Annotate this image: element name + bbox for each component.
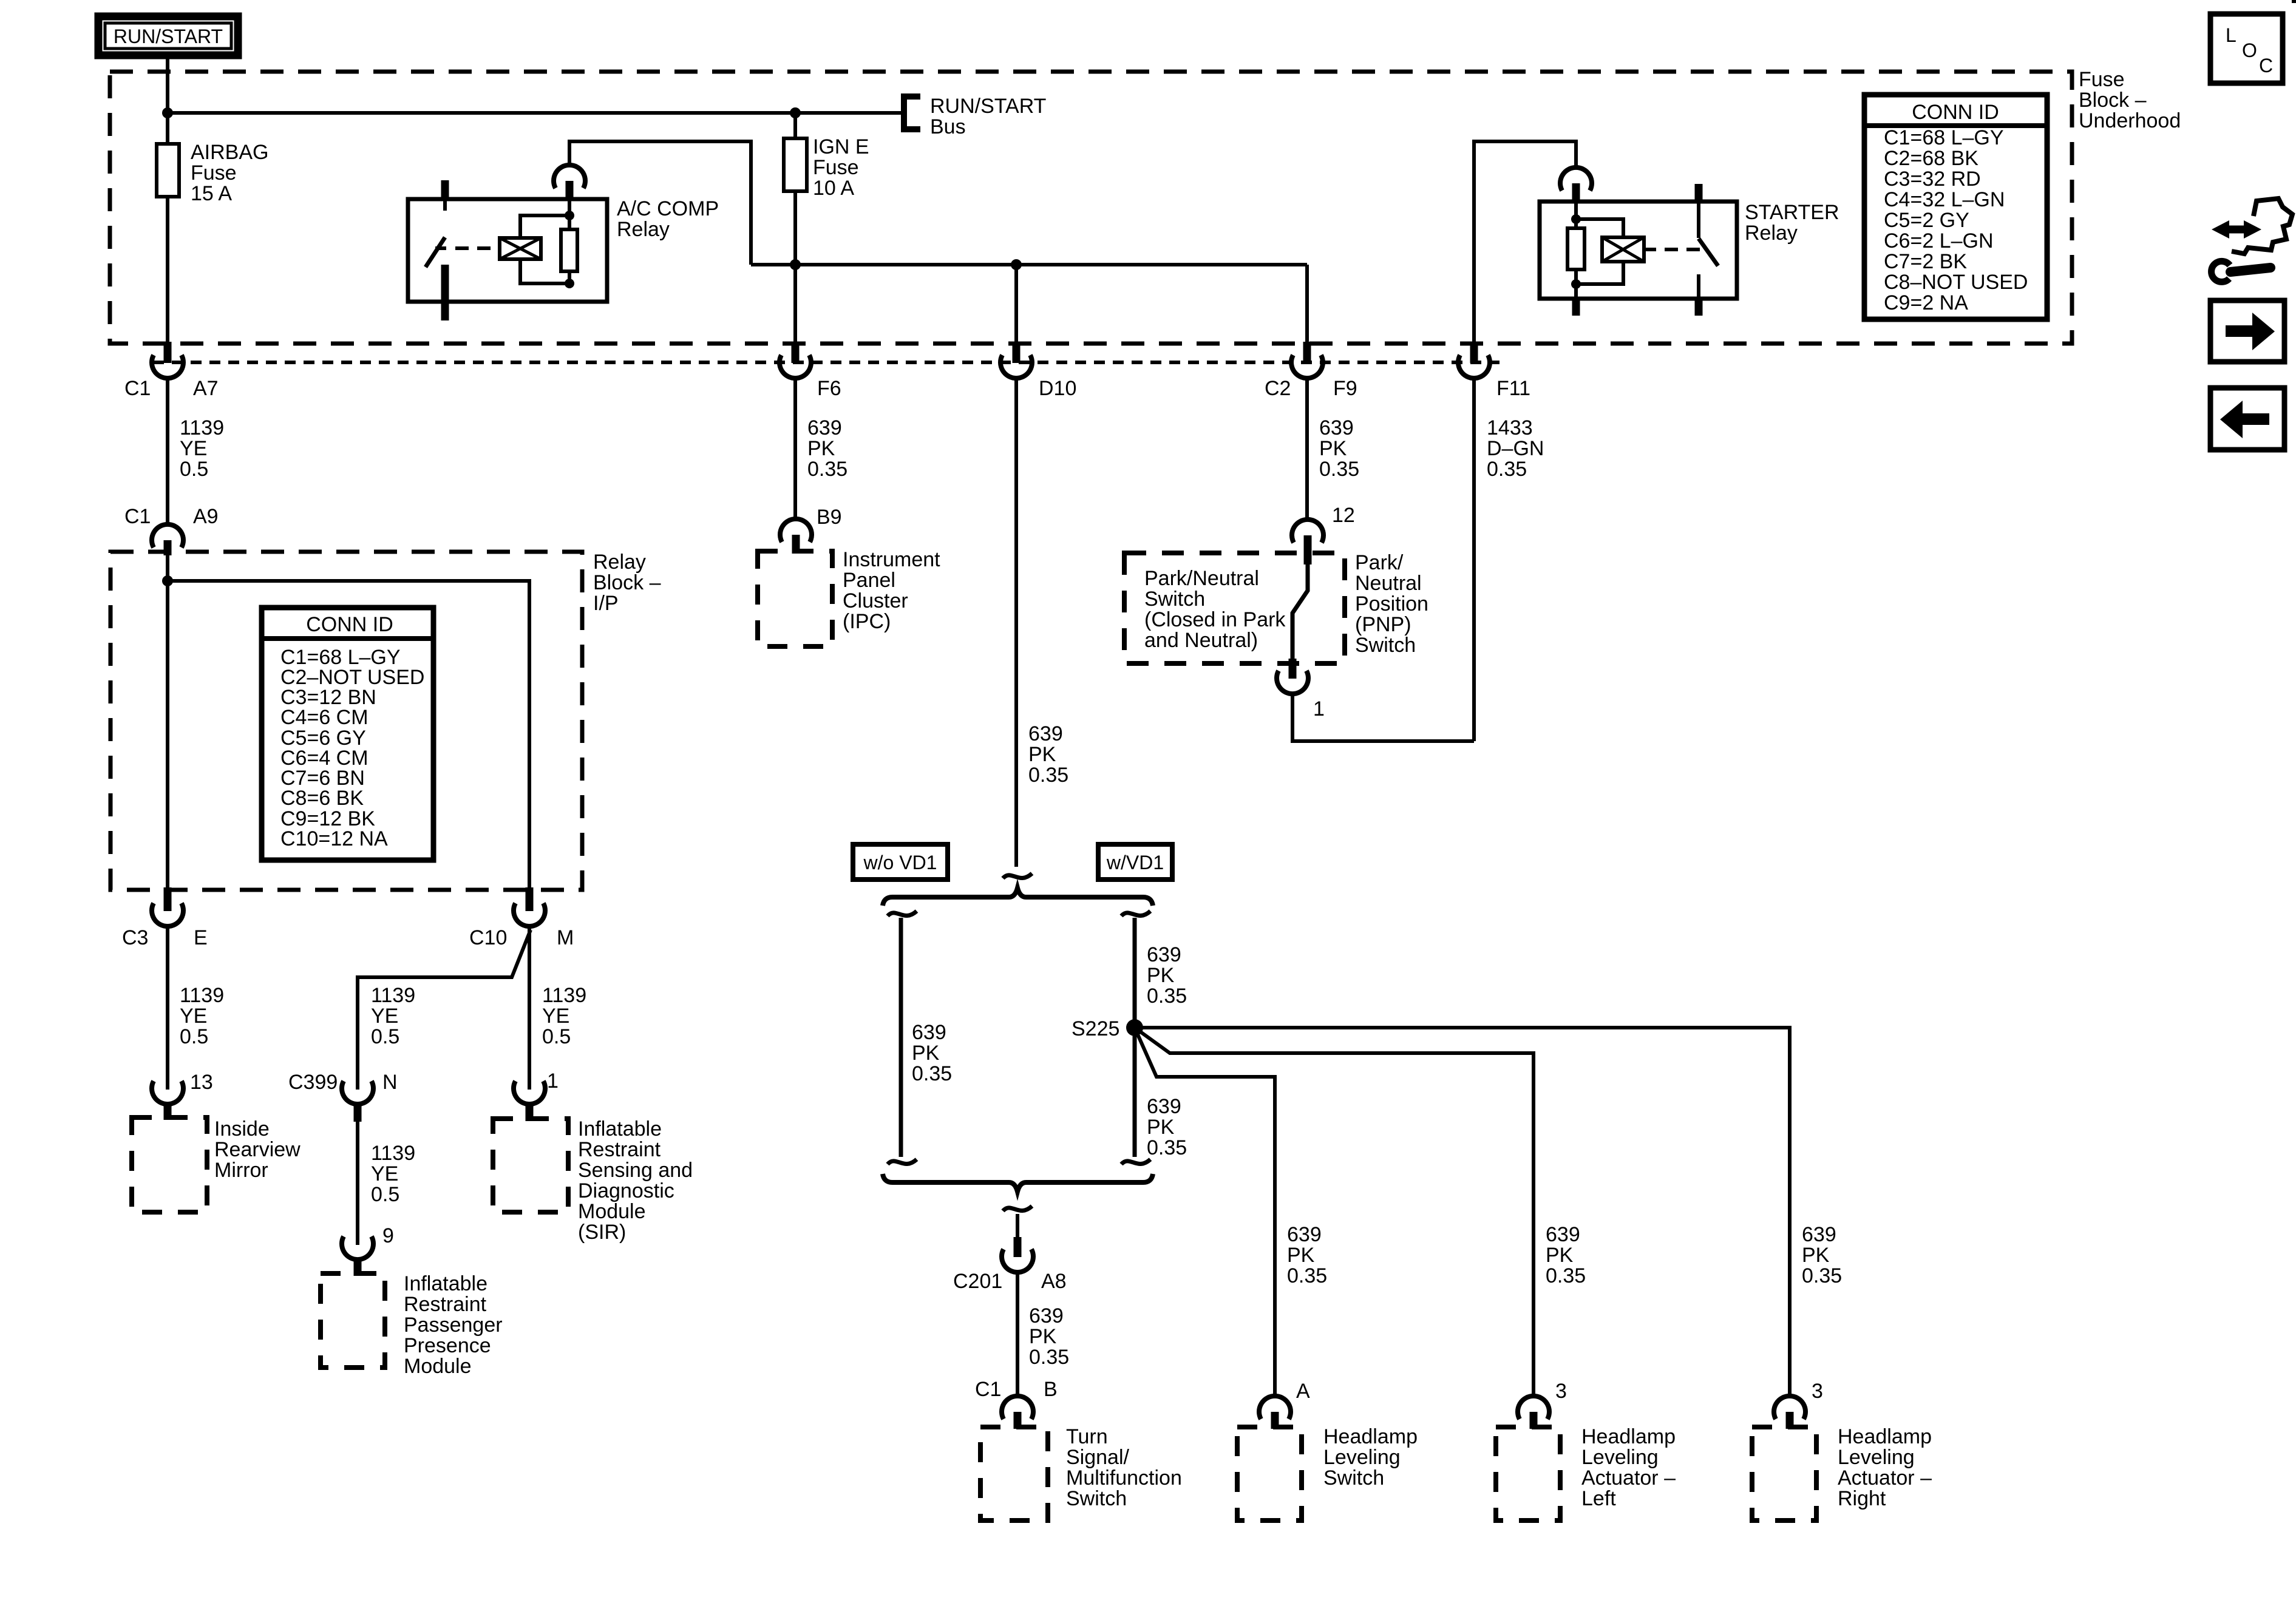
svg-text:0.35: 0.35 (912, 1062, 952, 1085)
svg-text:Fuse: Fuse (2079, 68, 2125, 91)
svg-text:PK: PK (912, 1042, 940, 1065)
wire break squiggle right branch bottom (1121, 1159, 1150, 1164)
relay STARTER coil top wire (1576, 219, 1623, 237)
svg-text:639: 639 (1029, 1304, 1064, 1327)
connector arc at A/C relay coil pin (554, 165, 585, 188)
svg-text:AIRBAG: AIRBAG (191, 141, 268, 164)
svg-text:A/C COMP: A/C COMP (617, 197, 719, 220)
svg-text:C9=2 NA: C9=2 NA (1884, 291, 1968, 314)
component box Turn Signal Multifunction Switch (980, 1425, 1182, 1520)
component box Inflatable Restraint Passenger Presence Module (321, 1272, 503, 1378)
svg-text:Leveling: Leveling (1323, 1446, 1401, 1469)
connector C1 pin A9 (124, 505, 219, 555)
svg-text:w/o VD1: w/o VD1 (863, 852, 937, 873)
svg-text:Switch: Switch (1066, 1487, 1127, 1510)
svg-text:0.35: 0.35 (1147, 985, 1187, 1008)
RUN/START Bus terminal bracket (904, 95, 1046, 138)
connector D10 (1000, 342, 1076, 400)
svg-text:YE: YE (371, 1162, 398, 1185)
svg-text:C: C (2259, 55, 2273, 76)
svg-text:and Neutral): and Neutral) (1144, 629, 1258, 652)
fuse IGN E 10A (784, 113, 869, 345)
icon vehicle outline with wrench (2212, 198, 2292, 282)
svg-text:C3: C3 (122, 926, 148, 949)
connector 12 PNP switch (1292, 504, 1355, 564)
svg-text:639: 639 (1546, 1223, 1580, 1246)
svg-text:C2=68 BK: C2=68 BK (1884, 147, 1978, 170)
svg-text:w/VD1: w/VD1 (1106, 852, 1164, 873)
icon forward arrow box (2210, 300, 2284, 362)
svg-text:Signal/: Signal/ (1066, 1446, 1130, 1469)
svg-text:Module: Module (404, 1355, 472, 1378)
svg-text:C1=68 L–GY: C1=68 L–GY (1884, 126, 2004, 149)
wire RUN/START bus horizontal (168, 111, 904, 115)
svg-text:F9: F9 (1333, 377, 1357, 400)
connector C201 pin A8 (953, 1237, 1067, 1293)
svg-text:S225: S225 (1072, 1017, 1119, 1040)
svg-text:IGN E: IGN E (813, 135, 869, 158)
svg-text:Park/Neutral: Park/Neutral (1144, 567, 1259, 590)
wire 639 PK D10 long drop (1016, 378, 1068, 867)
relay A/C COMP switch blade (426, 237, 445, 267)
svg-text:C7=2 BK: C7=2 BK (1884, 250, 1967, 273)
wire 1139 YE branch M to C399 (358, 930, 531, 1090)
svg-text:Block –: Block – (593, 571, 661, 594)
svg-text:Right: Right (1838, 1487, 1886, 1510)
relay STARTER switch fixed lead (1697, 203, 1700, 238)
icon LOC locator box (2210, 14, 2283, 83)
svg-text:M: M (557, 926, 574, 949)
svg-text:0.35: 0.35 (1487, 458, 1527, 481)
svg-text:15 A: 15 A (191, 182, 232, 205)
svg-text:Rearview: Rearview (214, 1138, 301, 1161)
connector F6 (779, 342, 841, 400)
wire rejoined to C201 (1016, 1214, 1019, 1239)
wire S225 to headlamp actuator left (1135, 1028, 1586, 1396)
wire 1433 D-GN F11 down (1474, 378, 1544, 741)
wire STARTER coil feed to F11 (1474, 141, 1576, 345)
svg-text:639: 639 (1028, 722, 1063, 745)
svg-text:13: 13 (190, 1071, 213, 1094)
relay STARTER switch blade (1699, 239, 1718, 266)
svg-text:CONN ID: CONN ID (306, 613, 393, 636)
svg-text:1433: 1433 (1487, 416, 1533, 439)
wire break squiggle top of VD1 split (1003, 873, 1032, 878)
page corner mark (2292, 0, 2296, 3)
relay STARTER switch pin top stub (1695, 184, 1703, 203)
svg-text:0.5: 0.5 (542, 1025, 571, 1048)
wire F9 drop inside fuse block (1305, 265, 1309, 345)
relay STARTER switch contact tick (1686, 248, 1697, 251)
svg-text:0.5: 0.5 (180, 458, 208, 481)
wire inside relay block left column (166, 554, 169, 892)
node junction dot at IGN E fuse tap (790, 107, 801, 118)
wire 639 PK F9 to PNP 12 (1307, 378, 1359, 520)
connector pin A headlamp leveling switch (1259, 1380, 1310, 1429)
svg-text:D–GN: D–GN (1487, 437, 1544, 460)
svg-text:1: 1 (547, 1070, 559, 1093)
svg-text:1139: 1139 (542, 984, 586, 1007)
svg-text:0.5: 0.5 (371, 1183, 399, 1206)
svg-text:Instrument: Instrument (843, 548, 940, 571)
node dot starter coil bottom (1571, 279, 1581, 289)
connector pin 3 headlamp actuator left (1518, 1380, 1567, 1429)
option box w/o VD1 (853, 844, 948, 880)
svg-text:Sensing and: Sensing and (578, 1159, 693, 1182)
svg-text:0.35: 0.35 (1546, 1264, 1586, 1287)
svg-text:0.35: 0.35 (1028, 764, 1068, 787)
svg-text:L: L (2226, 24, 2237, 46)
wire 1139 YE N to 9 (358, 1122, 415, 1245)
component box Inside Rearview Mirror (132, 1117, 301, 1212)
svg-text:C1: C1 (975, 1378, 1001, 1401)
svg-text:Presence: Presence (404, 1334, 491, 1357)
svg-text:B9: B9 (817, 506, 842, 529)
svg-text:Underhood: Underhood (2079, 109, 2181, 132)
svg-text:A: A (1296, 1380, 1310, 1403)
svg-text:CONN ID: CONN ID (1912, 101, 1999, 124)
svg-text:C10=12 NA: C10=12 NA (280, 827, 388, 850)
svg-text:(Closed in Park: (Closed in Park (1144, 608, 1286, 631)
svg-text:Headlamp: Headlamp (1838, 1425, 1932, 1448)
dotted connector interface line (153, 361, 1500, 364)
svg-text:0.35: 0.35 (1287, 1264, 1327, 1287)
svg-text:Relay: Relay (617, 218, 670, 241)
fuse AIRBAG 15A (157, 113, 268, 345)
svg-text:9: 9 (382, 1224, 394, 1247)
PNP switch bottom stub (1289, 659, 1297, 679)
svg-text:B: B (1044, 1378, 1058, 1401)
relay A/C COMP switch contact tick (435, 246, 446, 250)
relay block I/P dashed box (110, 551, 661, 890)
CONN ID table I/P (262, 608, 433, 860)
component box Headlamp Leveling Actuator Right (1752, 1425, 1932, 1520)
svg-text:Diagnostic: Diagnostic (578, 1179, 674, 1202)
node dot coil bottom (565, 279, 574, 288)
wire ignition feed horizontal (751, 263, 1307, 266)
svg-text:C399: C399 (288, 1071, 338, 1094)
relay STARTER coil (1602, 237, 1644, 262)
svg-text:Relay: Relay (1745, 222, 1798, 245)
node junction dot at AIRBAG fuse tap (162, 107, 173, 118)
svg-text:Relay: Relay (593, 551, 646, 574)
svg-text:O: O (2242, 39, 2257, 61)
label RUN/START power tag (98, 16, 238, 55)
svg-text:Passenger: Passenger (404, 1314, 503, 1337)
svg-text:639: 639 (912, 1021, 946, 1044)
svg-text:639: 639 (1802, 1223, 1836, 1246)
svg-text:PK: PK (1802, 1244, 1830, 1267)
svg-text:PK: PK (1546, 1244, 1574, 1267)
svg-text:PK: PK (807, 437, 835, 460)
node junction dot D10 column (1011, 259, 1022, 270)
relay STARTER coil pin stub (1572, 183, 1580, 203)
svg-text:Left: Left (1581, 1487, 1616, 1510)
svg-text:Restraint: Restraint (404, 1293, 487, 1316)
wire S225 to headlamp actuator right (1135, 1028, 1842, 1396)
svg-text:0.35: 0.35 (807, 458, 847, 481)
svg-text:Bus: Bus (930, 115, 966, 138)
splice S225 (1072, 1017, 1143, 1040)
svg-text:C6=2 L–GN: C6=2 L–GN (1884, 229, 1994, 253)
svg-text:Actuator –: Actuator – (1838, 1466, 1932, 1490)
wire 639 PK F6 to B9 (795, 378, 847, 519)
connector C1 pin B turn signal (975, 1378, 1058, 1429)
relay STARTER coil tick (1644, 248, 1656, 251)
connector C2 pin F9 (1265, 342, 1357, 400)
top selection brace (883, 888, 1153, 906)
svg-text:Switch: Switch (1323, 1466, 1384, 1490)
svg-text:10 A: 10 A (813, 177, 854, 200)
svg-text:C1: C1 (124, 377, 151, 400)
relay STARTER actuation dashed link (1665, 248, 1701, 251)
svg-text:Leveling: Leveling (1581, 1446, 1659, 1469)
wire 1139 YE M to SIR (529, 926, 586, 1090)
svg-text:PK: PK (1319, 437, 1347, 460)
relay STARTER resistor (1567, 203, 1584, 285)
wire w/o VD1 branch (901, 918, 952, 1157)
label park neutral position PNP switch (1355, 551, 1428, 657)
svg-text:F11: F11 (1496, 377, 1530, 400)
wire break squiggle left branch top (888, 911, 917, 916)
svg-text:12: 12 (1332, 504, 1355, 527)
connector pin 3 headlamp actuator right (1774, 1380, 1823, 1429)
svg-text:Headlamp: Headlamp (1323, 1425, 1418, 1448)
wire 639 PK A8 to B (1017, 1272, 1069, 1396)
wire relay block branch to C10 (168, 581, 529, 892)
svg-text:Actuator –: Actuator – (1581, 1466, 1676, 1490)
svg-text:Park/: Park/ (1355, 551, 1404, 574)
svg-text:A8: A8 (1041, 1270, 1067, 1293)
option box w/VD1 (1098, 844, 1172, 880)
park/neutral switch dashed box (1124, 553, 1345, 663)
svg-text:(SIR): (SIR) (578, 1221, 626, 1244)
wire break squiggle right branch top (1121, 911, 1150, 916)
relay STARTER coil bottom wire (1576, 262, 1623, 284)
wire from RUN/START tag to bus (166, 55, 169, 115)
svg-text:Turn: Turn (1066, 1425, 1108, 1448)
wire A/C relay coil feed from IGN E (569, 141, 751, 265)
svg-text:C8–NOT USED: C8–NOT USED (1884, 271, 2028, 294)
node junction dot F6 column (790, 259, 801, 270)
wire break squiggle below bottom brace (1003, 1206, 1032, 1211)
svg-text:0.5: 0.5 (371, 1025, 399, 1048)
connector C1 pin A7 (124, 342, 219, 425)
svg-text:C5=2 GY: C5=2 GY (1884, 209, 1969, 232)
svg-text:RUN/START: RUN/START (114, 25, 223, 47)
svg-text:1139: 1139 (180, 416, 224, 439)
relay STARTER left pin bottom stub (1572, 297, 1580, 316)
relay STARTER switch bottom lead (1697, 274, 1700, 297)
svg-text:639: 639 (1147, 943, 1181, 966)
svg-text:Panel: Panel (843, 569, 895, 592)
svg-text:Module: Module (578, 1200, 646, 1223)
svg-text:0.35: 0.35 (1802, 1264, 1842, 1287)
svg-text:C4=6 CM: C4=6 CM (280, 706, 369, 729)
svg-text:STARTER: STARTER (1745, 201, 1839, 224)
wire break squiggle left branch bottom (888, 1159, 917, 1164)
svg-text:Fuse: Fuse (813, 156, 859, 179)
connector arc at STARTER relay coil pin (1560, 168, 1592, 191)
svg-text:F6: F6 (817, 377, 841, 400)
svg-text:Block –: Block – (2079, 89, 2147, 112)
svg-text:I/P: I/P (593, 592, 619, 615)
component box Headlamp Leveling Switch (1237, 1425, 1418, 1520)
svg-text:C3=32 RD: C3=32 RD (1884, 168, 1981, 191)
svg-text:Switch: Switch (1144, 588, 1205, 611)
svg-text:YE: YE (180, 1005, 207, 1028)
svg-text:Mirror: Mirror (214, 1159, 268, 1182)
wire S225 to headlamp leveling switch (1135, 1028, 1327, 1396)
svg-text:C2: C2 (1265, 377, 1291, 400)
svg-text:0.35: 0.35 (1029, 1346, 1069, 1369)
CONN ID table underhood (1864, 95, 2047, 319)
svg-text:0.35: 0.35 (1147, 1136, 1187, 1159)
connector pin 1 PNP (1277, 671, 1325, 720)
component box Inflatable Restraint Sensing and Diagnostic Module SIR (493, 1117, 693, 1244)
relay A/C COMP coil (500, 238, 541, 259)
wire w/VD1 branch lower 639 PK label (1147, 1095, 1187, 1159)
node dot coil top (565, 211, 574, 220)
connector pin 13 mirror (152, 1071, 213, 1120)
relay A/C COMP switch pin bottom stub (441, 265, 449, 320)
connector pin 1 SIR module (514, 1070, 559, 1121)
svg-text:PK: PK (1028, 743, 1056, 766)
relay A/C COMP box (408, 197, 719, 302)
wire D10 drop inside fuse block (1014, 265, 1018, 345)
svg-text:1139: 1139 (371, 1142, 415, 1165)
svg-text:YE: YE (371, 1005, 398, 1028)
component box Instrument Panel Cluster IPC (758, 548, 940, 646)
svg-text:639: 639 (1147, 1095, 1181, 1118)
svg-text:Switch: Switch (1355, 634, 1416, 657)
svg-text:1139: 1139 (371, 984, 415, 1007)
svg-text:0.35: 0.35 (1319, 458, 1359, 481)
svg-text:1139: 1139 (180, 984, 224, 1007)
svg-text:Cluster: Cluster (843, 589, 908, 612)
svg-text:PK: PK (1287, 1244, 1315, 1267)
svg-text:Inflatable: Inflatable (578, 1117, 662, 1141)
svg-text:Fuse: Fuse (191, 161, 237, 185)
svg-text:(PNP): (PNP) (1355, 613, 1411, 636)
svg-text:D10: D10 (1039, 377, 1076, 400)
component box Headlamp Leveling Actuator Left (1496, 1425, 1676, 1520)
icon back arrow box (2210, 388, 2284, 450)
relay A/C COMP switch fixed lead (443, 199, 447, 211)
svg-text:3: 3 (1555, 1380, 1567, 1403)
svg-text:639: 639 (807, 416, 842, 439)
connector C10 pin M (469, 887, 574, 949)
svg-text:639: 639 (1287, 1223, 1322, 1246)
relay A/C COMP switch pin top stub (441, 180, 449, 200)
svg-text:Inflatable: Inflatable (404, 1272, 487, 1295)
svg-text:(IPC): (IPC) (843, 610, 891, 633)
svg-text:PK: PK (1147, 964, 1175, 987)
wire w/VD1 branch upper 639 PK (1135, 918, 1187, 1157)
svg-text:0.5: 0.5 (180, 1025, 208, 1048)
node junction dot relay block (162, 575, 173, 586)
svg-text:Inside: Inside (214, 1117, 270, 1141)
svg-text:YE: YE (180, 437, 207, 460)
svg-text:Restraint: Restraint (578, 1138, 661, 1161)
relay A/C COMP actuation dashed link (455, 246, 495, 250)
relay A/C COMP coil pin stub (568, 198, 571, 215)
connector C399 pin N (288, 1071, 398, 1122)
connector F11 (1458, 342, 1530, 400)
PNP switch blade (1292, 564, 1308, 660)
svg-text:RUN/START: RUN/START (930, 95, 1046, 118)
svg-text:N: N (382, 1071, 398, 1094)
svg-text:A9: A9 (193, 505, 219, 528)
svg-text:3: 3 (1812, 1380, 1823, 1403)
svg-text:C1: C1 (124, 505, 151, 528)
svg-text:Neutral: Neutral (1355, 572, 1422, 595)
svg-text:C10: C10 (469, 926, 507, 949)
relay A/C COMP resistor (561, 215, 577, 283)
svg-text:Leveling: Leveling (1838, 1446, 1915, 1469)
wire 1139 YE A7 to A9 (168, 378, 224, 524)
svg-text:PK: PK (1147, 1116, 1175, 1139)
svg-text:YE: YE (542, 1005, 569, 1028)
svg-text:C201: C201 (953, 1270, 1002, 1293)
relay A/C COMP coil bottom wire (520, 259, 569, 283)
bottom selection brace (883, 1174, 1153, 1192)
node dot starter coil top (1571, 214, 1581, 224)
relay STARTER switch pin bottom stub (1695, 297, 1703, 316)
fuse block underhood dashed box (110, 68, 2181, 344)
wire 1139 YE E to mirror (168, 926, 224, 1090)
svg-text:1: 1 (1313, 697, 1325, 720)
svg-text:Multifunction: Multifunction (1066, 1466, 1182, 1490)
svg-text:Position: Position (1355, 592, 1428, 615)
svg-text:E: E (194, 926, 208, 949)
wire PNP pin1 to F11 column (1292, 694, 1474, 741)
svg-text:C8=6 BK: C8=6 BK (280, 787, 364, 810)
connector C3 pin E (122, 887, 208, 949)
svg-text:Headlamp: Headlamp (1581, 1425, 1676, 1448)
relay STARTER box (1540, 201, 1839, 299)
connector B9 IPC (780, 506, 842, 554)
svg-text:PK: PK (1029, 1325, 1057, 1348)
relay A/C COMP coil top wire (520, 215, 569, 238)
svg-text:A7: A7 (193, 377, 219, 400)
svg-text:C4=32 L–GN: C4=32 L–GN (1884, 188, 2005, 211)
svg-text:639: 639 (1319, 416, 1354, 439)
connector pin 9 presence module (342, 1224, 394, 1276)
